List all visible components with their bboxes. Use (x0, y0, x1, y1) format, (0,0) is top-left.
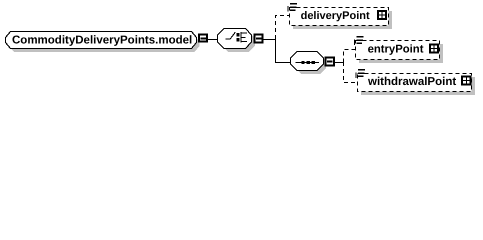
wire trunk2 to entryPoint dashed (344, 50, 356, 63)
element withdrawalPoint shadow (361, 77, 475, 95)
root element CommodityDeliveryPoints.model shadow (9, 36, 200, 53)
wire sequence-minus to trunk2 dashed (339, 62, 344, 64)
element withdrawalPoint plus box (461, 75, 472, 85)
root expand minus box (198, 34, 208, 43)
sequence compositor octagon (291, 52, 324, 71)
element deliveryPoint shadow (293, 11, 392, 29)
svg-text:CommodityDeliveryPoints.model: CommodityDeliveryPoints.model (12, 34, 192, 46)
element entryPoint plus box (429, 44, 439, 54)
wire sequence-minus stub (335, 62, 339, 64)
element deliveryPoint plus box (377, 10, 387, 20)
element entryPoint shadow (359, 44, 443, 63)
element deliveryPoint box (290, 8, 389, 26)
wire choice-minus to trunk (263, 39, 276, 41)
choice glyph squares (237, 33, 240, 36)
choice compositor octagon (218, 29, 252, 49)
svg-text:withdrawalPoint: withdrawalPoint (367, 76, 456, 88)
root element CommodityDeliveryPoints.model box (6, 32, 197, 49)
svg-text:entryPoint: entryPoint (368, 43, 424, 55)
sequence glyph squares (301, 61, 304, 64)
choice expand minus box (254, 34, 264, 44)
sequence glyph line (296, 62, 320, 64)
element withdrawalPoint box (358, 74, 472, 92)
wire trunk choice lower solid to sequence (276, 40, 292, 63)
wire trunk2 to withdrawalPoint dashed (344, 62, 358, 83)
element entryPoint box (356, 41, 440, 60)
wire trunk choice upper dashed to deliveryPoint (276, 16, 290, 40)
sequence compositor shadow (295, 55, 326, 74)
sequence expand minus box (324, 57, 334, 67)
svg-text:deliveryPoint: deliveryPoint (301, 10, 370, 22)
element withdrawalPoint annotation marker (356, 70, 365, 78)
element deliveryPoint annotation marker (288, 4, 297, 12)
choice glyph switch arm (226, 32, 236, 39)
choice compositor shadow (222, 32, 255, 52)
choice glyph bar with prongs (241, 32, 247, 42)
wire root to choice (207, 39, 219, 41)
element entryPoint annotation marker (354, 37, 363, 45)
